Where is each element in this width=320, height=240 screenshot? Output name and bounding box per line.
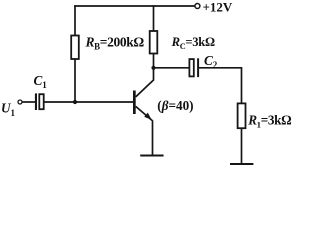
svg-text:C2: C2 (204, 53, 218, 70)
wire C2 left (collector to C2) (154, 67, 190, 69)
resistor RC (150, 31, 158, 54)
resistor R1 (238, 103, 246, 128)
svg-text:U1: U1 (1, 100, 16, 118)
svg-text:RB=200kΩ: RB=200kΩ (85, 34, 145, 51)
wire RC top (153, 5, 155, 31)
wire top supply rail (74, 5, 195, 7)
terminal circle input (18, 100, 22, 104)
terminal circle +12V (195, 4, 200, 9)
svg-text:R1=3kΩ: R1=3kΩ (247, 112, 291, 129)
resistor RB (71, 36, 79, 60)
wire R1 bottom (241, 128, 243, 163)
svg-text:(β=40): (β=40) (157, 98, 193, 113)
wire C2 right to output corner (199, 68, 242, 104)
ground (emitter) (140, 155, 163, 157)
wire RC bottom (collector feed) (153, 53, 155, 68)
emitter lead (136, 106, 153, 155)
wire base (44, 101, 133, 103)
wire RB bottom (74, 59, 76, 103)
svg-text:RC=3kΩ: RC=3kΩ (171, 35, 215, 51)
junction dot collector (151, 66, 155, 70)
svg-text:C1: C1 (34, 73, 48, 90)
capacitor C2 (189, 58, 199, 77)
ground (output) (230, 163, 253, 165)
capacitor C1 (35, 93, 44, 110)
wire RB top (74, 5, 76, 35)
junction dot base (73, 100, 77, 104)
svg-text:+12V: +12V (203, 0, 233, 14)
wire input (22, 101, 35, 103)
emitter arrowhead (144, 113, 151, 120)
base bar (133, 91, 136, 115)
collector lead (136, 68, 154, 97)
transistor Q1 (133, 68, 154, 155)
